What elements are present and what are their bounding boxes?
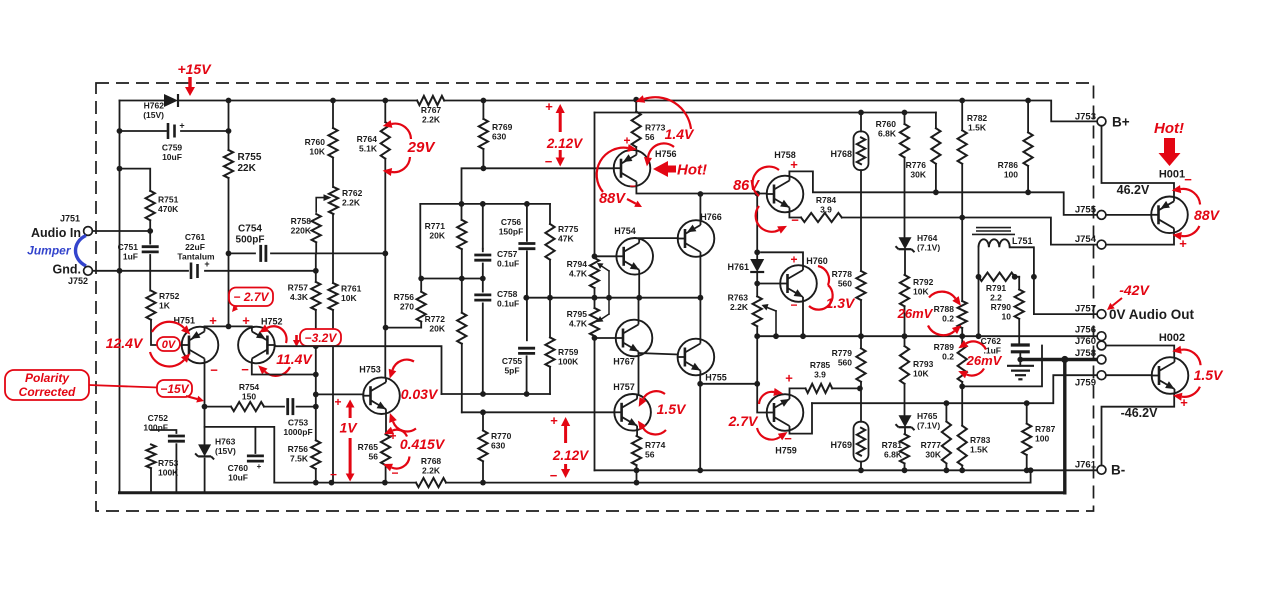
wire H767 collector <box>638 298 640 321</box>
wire H754 collector to H766 base <box>639 237 678 240</box>
wire H755 emitter to H759 base link <box>700 383 757 385</box>
svg-text:1V: 1V <box>339 420 358 436</box>
svg-text:1.5V: 1.5V <box>657 401 687 417</box>
svg-text:R789: R789 <box>934 342 955 352</box>
trimmer R795 4.7K <box>590 308 599 336</box>
svg-text:270: 270 <box>400 302 414 312</box>
svg-text:100: 100 <box>1035 434 1049 444</box>
svg-text:J753: J753 <box>1075 112 1096 123</box>
svg-text:R786: R786 <box>998 160 1019 170</box>
svg-text:6.8K: 6.8K <box>878 129 897 139</box>
svg-text:0.1uF: 0.1uF <box>497 299 519 309</box>
svg-text:H763: H763 <box>215 437 236 447</box>
svg-text:0.2: 0.2 <box>942 352 954 362</box>
wire driver H759 base column <box>757 336 767 412</box>
svg-text:220K: 220K <box>291 226 312 236</box>
svg-text:H756: H756 <box>655 149 677 159</box>
zener H763 15V <box>198 444 211 456</box>
svg-text:Hot!: Hot! <box>677 162 707 179</box>
wire R762 to R761 <box>332 214 334 283</box>
wire H751 base <box>151 320 182 345</box>
terminal J759 <box>1097 371 1106 380</box>
trimmer R794 4.7K <box>590 258 599 288</box>
svg-text:R753: R753 <box>158 458 179 468</box>
svg-text:R793: R793 <box>913 359 934 369</box>
Polarity Corrected callout <box>5 370 89 400</box>
wire R794 column <box>594 113 596 259</box>
svg-text:R760: R760 <box>305 137 326 147</box>
resistor R791 2.2 <box>979 273 1015 281</box>
svg-text:+: + <box>790 253 797 267</box>
svg-text:H765: H765 <box>917 411 938 421</box>
wire H752 base line <box>275 345 442 394</box>
transistor H758 <box>767 176 804 213</box>
svg-text:−: − <box>545 154 553 169</box>
svg-text:R763: R763 <box>728 293 749 303</box>
wire cascode bus <box>526 297 700 299</box>
svg-text:0V Audio Out: 0V Audio Out <box>1109 307 1194 322</box>
capacitor C759 <box>167 123 170 139</box>
zener H764 7.1V <box>899 237 912 249</box>
transistor H001 <box>1151 197 1188 234</box>
resistor R785 3.9 <box>806 384 833 393</box>
svg-text:56: 56 <box>645 132 655 142</box>
svg-text:R784: R784 <box>816 195 837 205</box>
wire compensation top bus <box>420 203 550 205</box>
svg-text:Audio In: Audio In <box>31 226 81 240</box>
svg-text:10K: 10K <box>341 293 357 303</box>
wire to zener H764 <box>904 158 906 238</box>
wire R779 bottom <box>860 382 862 422</box>
svg-text:R756: R756 <box>288 444 309 454</box>
svg-text:C758: C758 <box>497 289 518 299</box>
resistor R777 30K <box>942 422 951 464</box>
svg-text:30K: 30K <box>925 450 941 460</box>
svg-text:−: − <box>330 468 337 482</box>
wire H760 bias column <box>756 194 758 253</box>
transistor H760 <box>780 265 817 302</box>
svg-text:J752: J752 <box>68 276 88 286</box>
svg-text:+15V: +15V <box>177 61 212 77</box>
svg-text:0.03V: 0.03V <box>401 386 439 402</box>
svg-text:C751: C751 <box>118 242 139 252</box>
svg-text:R764: R764 <box>357 134 378 144</box>
resistor R770 630 <box>482 412 484 430</box>
svg-text:100pF: 100pF <box>143 423 168 433</box>
transistor H752 <box>238 327 275 364</box>
wire H767 emitter to H757 <box>638 356 640 395</box>
transistor H759 <box>767 394 804 431</box>
svg-text:R781: R781 <box>882 440 903 450</box>
svg-text:R760: R760 <box>876 119 897 129</box>
wire thin bottom rail <box>274 482 416 484</box>
svg-text:C756: C756 <box>501 217 522 227</box>
svg-text:R768: R768 <box>421 456 442 466</box>
svg-text:+: + <box>1180 395 1188 410</box>
resistor R779 560 <box>856 348 865 382</box>
svg-text:−: − <box>1184 172 1192 187</box>
svg-text:R777: R777 <box>921 440 942 450</box>
wire R751 branch <box>120 169 151 191</box>
svg-text:29V: 29V <box>407 139 437 156</box>
capacitor C758 0.1uF <box>482 279 484 292</box>
svg-text:H762: H762 <box>144 101 165 111</box>
zener H765 7.1V <box>899 415 912 427</box>
resistor R792 10K <box>900 275 909 306</box>
svg-text:(15V): (15V) <box>215 446 236 456</box>
wire input pair collectors tie <box>205 325 252 328</box>
wire audio input <box>92 230 150 232</box>
svg-text:2.2K: 2.2K <box>342 198 361 208</box>
svg-text:560: 560 <box>838 279 852 289</box>
resistor R759 100K <box>545 337 554 366</box>
svg-text:1.5K: 1.5K <box>968 123 987 133</box>
svg-text:H769: H769 <box>830 440 852 450</box>
wire +B top rail <box>120 100 165 102</box>
svg-text:560: 560 <box>838 358 852 368</box>
svg-text:R772: R772 <box>425 314 446 324</box>
resistor R784 3.9 <box>801 213 842 222</box>
svg-text:.1uF: .1uF <box>984 346 1001 356</box>
transistor H767 <box>616 320 653 357</box>
svg-text:R756: R756 <box>394 292 415 302</box>
svg-text:R788: R788 <box>934 304 955 314</box>
svg-text:0.1uF: 0.1uF <box>497 259 519 269</box>
svg-text:Tantalum: Tantalum <box>177 252 215 262</box>
wire R761 down to bottom rail <box>332 310 334 483</box>
wire B+ to H001 collector <box>1102 126 1175 197</box>
transistor H754 <box>616 238 653 275</box>
svg-text:R792: R792 <box>913 277 934 287</box>
svg-text:−: − <box>550 468 558 483</box>
svg-text:R754: R754 <box>239 382 260 392</box>
resistor R776 30K <box>935 113 937 129</box>
svg-text:−3.2V: −3.2V <box>305 331 338 345</box>
resistor R781 6.8K <box>900 434 909 463</box>
svg-text:R785: R785 <box>810 360 831 370</box>
capacitor C756 150pF <box>526 204 528 241</box>
resistor R774 56 <box>632 436 641 465</box>
svg-text:R778: R778 <box>832 269 853 279</box>
svg-text:30K: 30K <box>910 170 926 180</box>
svg-text:J754: J754 <box>1075 234 1097 245</box>
resistor R764 5.1K <box>384 101 386 123</box>
svg-text:+: + <box>334 395 341 409</box>
resistor R760 10K <box>332 101 334 129</box>
inductor L751 <box>978 247 980 276</box>
svg-text:1000pF: 1000pF <box>283 427 312 437</box>
resistor R789 0.2 <box>958 343 967 382</box>
resistor R773 56 <box>635 100 637 112</box>
resistor R783 1.5K <box>961 386 963 425</box>
resistor R769 630 <box>482 101 484 119</box>
resistor R757 4.3K <box>311 282 320 310</box>
resistor R761 10K <box>328 283 337 310</box>
resistor R786 100 <box>1027 101 1029 133</box>
resistor R765 56 <box>381 434 390 465</box>
svg-text:10uF: 10uF <box>162 152 182 162</box>
capacitor C751 1uF <box>149 231 151 244</box>
wire C759 branch <box>120 130 167 132</box>
svg-text:1K: 1K <box>159 301 171 311</box>
resistor R771 20K <box>461 204 463 220</box>
wire VAS output line <box>442 393 551 395</box>
svg-text:2.12V: 2.12V <box>546 136 583 151</box>
wire R795 bottom to H767 base and tail <box>594 336 596 470</box>
svg-text:22K: 22K <box>238 163 257 174</box>
0V annotation box <box>157 337 180 351</box>
resistor R755 22K <box>228 101 230 151</box>
resistor R787 100 <box>1026 403 1028 423</box>
wire R784 to J754 <box>842 218 1097 245</box>
svg-text:R779: R779 <box>832 348 853 358</box>
svg-text:R762: R762 <box>342 188 363 198</box>
svg-text:J758: J758 <box>1075 348 1096 359</box>
svg-text:R758: R758 <box>291 216 312 226</box>
svg-text:1uF: 1uF <box>123 252 138 262</box>
resistor R788 0.2 <box>958 301 967 328</box>
wire ground line <box>92 270 188 272</box>
resistor R754 150 <box>205 406 232 408</box>
svg-text:0.415V: 0.415V <box>400 436 446 452</box>
svg-text:Polarity: Polarity <box>25 371 70 385</box>
wire J760 to H002 collector <box>1106 346 1174 358</box>
wire C757-C758 mid line <box>420 278 483 280</box>
svg-text:Gnd.: Gnd. <box>53 263 81 277</box>
svg-text:470K: 470K <box>158 204 179 214</box>
resistor R756 270 <box>420 279 422 292</box>
svg-text:R769: R769 <box>492 122 513 132</box>
resistor R767 2.2K <box>417 96 444 105</box>
svg-text:R773: R773 <box>645 123 666 133</box>
svg-text:C759: C759 <box>162 143 183 153</box>
svg-text:630: 630 <box>491 441 505 451</box>
wire H754 base stub <box>595 255 617 257</box>
svg-text:B+: B+ <box>1112 115 1130 130</box>
svg-text:R767: R767 <box>421 105 442 115</box>
wire J758 heavy line <box>1020 358 1097 361</box>
svg-text:(15V): (15V) <box>143 110 164 120</box>
svg-text:−: − <box>790 298 797 312</box>
svg-text:Corrected: Corrected <box>19 385 76 399</box>
transistor H002 <box>1152 357 1189 394</box>
svg-text:−: − <box>210 363 218 378</box>
svg-text:12.4V: 12.4V <box>106 335 144 351</box>
diode H761 <box>750 259 764 272</box>
svg-text:C760: C760 <box>228 463 249 473</box>
wire C757 top <box>482 204 484 249</box>
svg-text:20K: 20K <box>429 324 445 334</box>
wire H757 emitter to R774 <box>636 430 638 436</box>
resistor R772 20K <box>457 313 466 344</box>
capacitor C752 100pF <box>151 430 176 433</box>
svg-text:J760: J760 <box>1075 336 1096 347</box>
svg-text:100K: 100K <box>558 357 579 367</box>
svg-text:C762: C762 <box>981 336 1002 346</box>
svg-text:C755: C755 <box>502 356 523 366</box>
svg-text:100: 100 <box>1004 170 1018 180</box>
svg-text:1.5V: 1.5V <box>1194 367 1224 383</box>
resistor R751 470K <box>146 191 155 221</box>
wire H760 base <box>757 283 780 285</box>
svg-text:630: 630 <box>492 132 506 142</box>
svg-text:R790: R790 <box>991 302 1012 312</box>
capacitor C762 .1uF <box>1011 343 1030 346</box>
svg-text:1.5K: 1.5K <box>970 445 989 455</box>
wire R778 to R779 <box>860 300 862 348</box>
wire R755 node down to input pair collectors <box>228 253 230 326</box>
transistor H756 <box>614 150 651 187</box>
svg-text:-46.2V: -46.2V <box>1121 406 1158 420</box>
svg-text:H753: H753 <box>359 365 381 375</box>
wire left vertical rail <box>119 101 121 493</box>
svg-text:5pF: 5pF <box>504 366 519 376</box>
svg-text:Hot!: Hot! <box>1154 120 1184 137</box>
svg-text:C761: C761 <box>185 232 206 242</box>
wire H755 collector <box>699 298 701 340</box>
svg-text:H001: H001 <box>1159 169 1185 181</box>
Hot! annotation mid <box>653 161 668 177</box>
svg-text:10: 10 <box>1002 312 1012 322</box>
svg-text:R757: R757 <box>288 283 309 293</box>
svg-text:H754: H754 <box>614 226 636 236</box>
svg-text:J756: J756 <box>1075 325 1096 336</box>
capacitor C761 22uF Tantalum <box>190 263 193 280</box>
svg-text:R770: R770 <box>491 431 512 441</box>
svg-text:R783: R783 <box>970 435 991 445</box>
capacitor C760 10uF <box>205 427 275 482</box>
svg-text:20K: 20K <box>429 231 445 241</box>
svg-text:−: − <box>241 362 249 377</box>
svg-text:C752: C752 <box>148 413 169 423</box>
svg-text:R791: R791 <box>986 283 1007 293</box>
svg-text:H760: H760 <box>806 256 828 266</box>
resistor R753 100K <box>146 444 155 468</box>
svg-text:B-: B- <box>1111 463 1125 478</box>
transistor H751 <box>182 327 219 364</box>
wire R772 bottom to VAS output <box>461 344 463 413</box>
svg-text:4.7K: 4.7K <box>569 319 588 329</box>
capacitor C757 0.1uF <box>482 249 484 252</box>
svg-text:+: + <box>257 462 262 471</box>
wire R782 bottom to R788 <box>961 218 963 302</box>
svg-text:J757: J757 <box>1075 304 1096 315</box>
svg-text:Jumper: Jumper <box>27 244 72 258</box>
wire R769 bottom to H756 base <box>482 149 484 168</box>
svg-text:H755: H755 <box>705 373 727 383</box>
wire H758 collector to J755 line <box>789 171 1097 215</box>
svg-text:11.4V: 11.4V <box>276 351 313 367</box>
wire R755 to C754 node <box>228 178 230 253</box>
resistor R782 1.5K <box>961 101 963 131</box>
svg-text:10uF: 10uF <box>228 473 248 483</box>
svg-text:150pF: 150pF <box>499 227 524 237</box>
svg-text:H764: H764 <box>917 233 938 243</box>
diode H762 <box>164 94 178 107</box>
wire R764 to H753 collector <box>384 159 386 377</box>
transistor H753 <box>363 377 400 414</box>
resistor R768 2.2K <box>416 478 446 487</box>
capacitor C754 500pF <box>229 252 256 254</box>
wire -15V net down <box>204 407 206 445</box>
svg-text:22uF: 22uF <box>185 242 205 252</box>
svg-text:+: + <box>179 121 184 131</box>
svg-text:10K: 10K <box>309 147 325 157</box>
svg-text:2.2K: 2.2K <box>422 115 441 125</box>
wire H760 collector <box>761 252 803 266</box>
wire C754 tap to R757 <box>315 253 317 282</box>
svg-text:2.2K: 2.2K <box>730 302 749 312</box>
svg-text:R752: R752 <box>159 291 180 301</box>
svg-text:+: + <box>790 157 798 172</box>
svg-text:R782: R782 <box>967 113 988 123</box>
wire R790 bottom to C762 <box>1018 319 1020 343</box>
svg-text:500pF: 500pF <box>236 235 265 246</box>
svg-text:H752: H752 <box>261 317 283 327</box>
R763 wiper <box>766 307 776 311</box>
svg-text:56: 56 <box>369 452 379 462</box>
wire H755 emitter down to B- rail <box>699 375 701 471</box>
svg-text:+: + <box>785 371 793 386</box>
svg-text:56: 56 <box>645 450 655 460</box>
wire L751 right down <box>1033 247 1035 314</box>
svg-text:88V: 88V <box>599 191 626 207</box>
svg-text:-42V: -42V <box>1119 282 1150 298</box>
svg-text:0.2: 0.2 <box>942 314 954 324</box>
resistor R775 47K <box>549 204 551 224</box>
transistor H766 <box>678 220 715 257</box>
wire R793 to H765 <box>904 384 906 415</box>
wire H753 emitter to R765 <box>385 414 387 435</box>
svg-text:47K: 47K <box>558 234 574 244</box>
thermistor H768 <box>860 113 862 132</box>
svg-text:H761: H761 <box>727 262 749 272</box>
svg-text:R774: R774 <box>645 440 666 450</box>
svg-text:R771: R771 <box>425 221 446 231</box>
svg-text:R787: R787 <box>1035 424 1056 434</box>
wire H002 emitter to J761 <box>1102 394 1175 466</box>
R795 wiper <box>600 314 609 320</box>
wire H001 emitter to J754 <box>1106 233 1174 245</box>
wire thick 0V rail <box>120 491 1065 494</box>
svg-text:R795: R795 <box>567 309 588 319</box>
ground symbol <box>1007 365 1034 367</box>
wire bias line to J756 <box>757 335 1097 337</box>
R762 wiper arrow <box>316 198 323 212</box>
svg-text:−: − <box>629 179 636 193</box>
resistor R756 7.5K <box>311 440 320 469</box>
svg-text:2.2K: 2.2K <box>422 466 441 476</box>
wire R769 tap down to R771 bus <box>462 168 484 204</box>
wire H758 emitter to R784 <box>789 212 801 218</box>
svg-text:H767: H767 <box>613 357 635 367</box>
wire H754 emitter to bus <box>638 274 640 298</box>
svg-text:+: + <box>550 413 558 428</box>
svg-text:26mV: 26mV <box>897 306 934 321</box>
svg-text:10K: 10K <box>913 287 929 297</box>
transistor H757 <box>614 394 651 431</box>
resistor R790 10 <box>1018 277 1020 290</box>
resistor R778 560 <box>856 271 865 300</box>
trimmer R758 220K <box>312 214 321 242</box>
svg-text:+: + <box>545 99 553 114</box>
capacitor C753 1000pF <box>264 406 284 408</box>
wire H752 emitter <box>252 363 316 375</box>
svg-text:R761: R761 <box>341 284 362 294</box>
wire H756 emitter line <box>636 186 766 194</box>
svg-text:C754: C754 <box>238 224 262 235</box>
svg-text:J761: J761 <box>1075 460 1097 471</box>
